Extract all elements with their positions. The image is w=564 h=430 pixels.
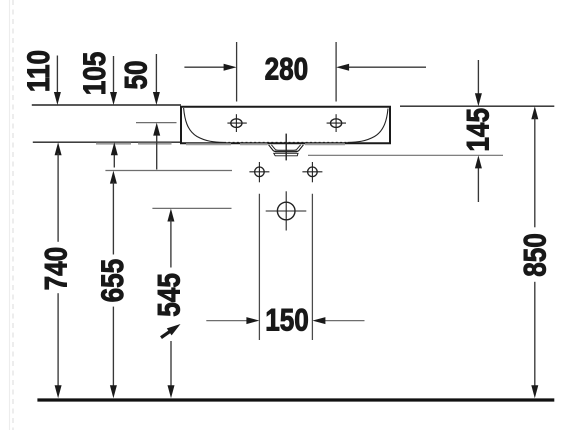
gray dashed underside line (96, 143, 345, 146)
top reference line left (wall to basin) (32, 104, 181, 106)
dimension 545 line (167, 209, 174, 399)
dimension 105 bottom arrow (111, 142, 118, 167)
svg-text:850: 850 (518, 233, 553, 277)
overflow circle (266, 191, 307, 230)
dimension 50 top arrow (153, 54, 160, 105)
svg-text:655: 655 (96, 259, 131, 303)
page left dashed line (12, 0, 14, 430)
dimension 150 right arrow (312, 317, 364, 324)
fixing holes reference line (105, 170, 232, 172)
dimension 105 top arrow (110, 56, 117, 105)
fixing hole centerline left (258, 194, 260, 340)
basin inner curve left (184, 108, 224, 142)
dimension 280 extension line right (335, 42, 337, 102)
dimension 150 left arrow (206, 317, 259, 324)
svg-text:545: 545 (152, 273, 187, 317)
dimension 280 extension line left (236, 42, 238, 102)
basin inner bottom dotted line (224, 141, 348, 143)
svg-text:110: 110 (22, 50, 57, 92)
fixing hole right (302, 162, 322, 182)
dimension 850 line (531, 106, 538, 398)
basin underside reference line (33, 141, 181, 143)
dimension 280 left arrow (184, 64, 236, 71)
svg-text:280: 280 (265, 52, 309, 87)
floor line (37, 398, 554, 401)
fixing hole left (249, 162, 269, 182)
dimension 50 bottom arrow (153, 123, 160, 170)
svg-text:50: 50 (119, 60, 154, 89)
basin outline (181, 107, 390, 144)
dimension 655 line (110, 171, 117, 399)
overflow reference line (152, 207, 231, 209)
drain fitting (269, 145, 304, 156)
dimension 145 bottom arrow (475, 155, 482, 202)
svg-text:740: 740 (39, 247, 74, 291)
drain center line (285, 134, 287, 161)
svg-text:150: 150 (265, 303, 309, 338)
fixing hole centerline right (311, 194, 313, 340)
deck holes reference line (50 level) (136, 122, 177, 124)
faucet hole right (327, 114, 346, 132)
dimension 145 top arrow (475, 60, 482, 106)
basin inner curve right (348, 109, 389, 143)
page left border line (9, 0, 11, 430)
dimension 545 leader arrow (161, 324, 181, 338)
dimension 110 arrow (54, 56, 61, 106)
svg-text:105: 105 (78, 52, 113, 96)
dimension 740 line (55, 142, 62, 398)
drain bottom reference line (308, 154, 503, 156)
svg-text:145: 145 (461, 108, 496, 152)
top reference line right (400, 105, 554, 107)
dimension 280 right arrow (336, 64, 426, 71)
faucet hole left (227, 114, 246, 132)
